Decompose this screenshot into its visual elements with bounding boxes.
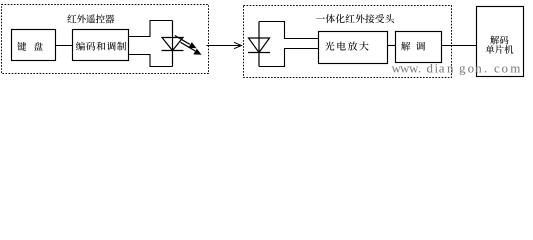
wire photodiode top to amplifier <box>259 22 319 39</box>
IR emission arrow 1 <box>175 36 197 49</box>
block 解码单片机 <box>477 7 524 77</box>
wire keyboard to encoder <box>56 45 73 47</box>
wire amplifier to demodulator <box>388 45 396 47</box>
wire demodulator to decoder MCU <box>442 45 477 47</box>
block 解调 <box>396 32 442 63</box>
wire encoder bottom to LED cathode <box>129 55 173 67</box>
label 一体化红外接受头 <box>316 14 394 23</box>
IR signal arrow between units <box>207 42 242 48</box>
dashed enclosure: receiver unit <box>244 6 452 78</box>
label 光电放大 <box>325 41 369 50</box>
IR emission arrow 2 <box>181 42 202 55</box>
block 光电放大 <box>319 32 388 64</box>
photodiode D2 <box>248 22 270 67</box>
wire encoder top to LED anode <box>129 21 173 37</box>
infrared LED D1 <box>162 21 184 67</box>
label 单片机 <box>486 45 514 54</box>
label 键盘 <box>17 42 43 51</box>
label 编码和调制 <box>76 42 126 51</box>
block 键盘 <box>12 30 56 61</box>
label 红外遥控器 <box>67 14 114 23</box>
label 解码 <box>490 36 508 45</box>
block 编码和调制 <box>73 30 129 61</box>
label 解调 <box>401 42 425 51</box>
wire photodiode bottom to amplifier <box>259 49 319 67</box>
dashed enclosure: transmitter unit <box>2 5 209 74</box>
